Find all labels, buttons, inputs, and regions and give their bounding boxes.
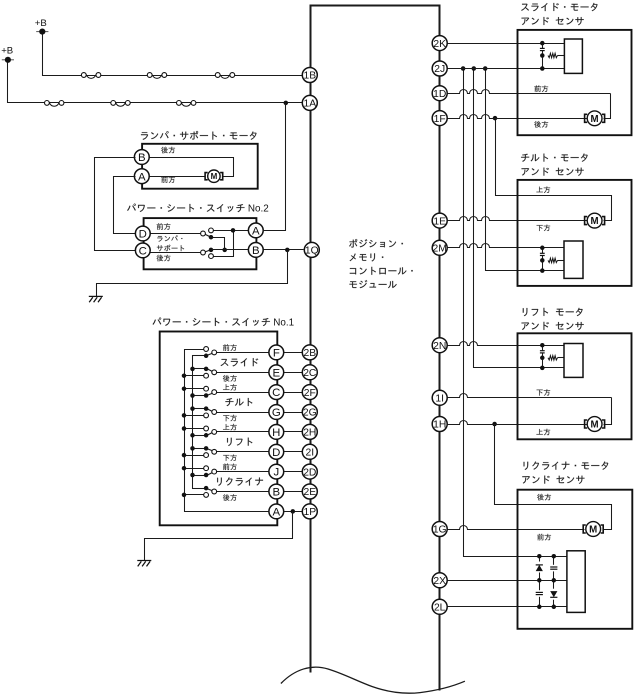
contact output H xyxy=(212,430,217,435)
label 上方 (tilt) xyxy=(536,186,550,192)
lift sensor block xyxy=(564,344,583,378)
label 下方 (lift) xyxy=(537,389,551,395)
junction left rail F xyxy=(0,0,1,1)
wire F to 2B xyxy=(284,352,304,354)
svg-text:2M: 2M xyxy=(433,244,447,255)
wire output D xyxy=(217,451,270,453)
pin 2C xyxy=(302,365,317,380)
wire rest contact D xyxy=(185,455,207,457)
junction on 1P line xyxy=(291,509,296,514)
wire left rail (rest contacts to A) xyxy=(185,350,270,512)
tilt sensor block xyxy=(564,241,583,278)
pin 2B xyxy=(302,345,317,360)
lift sensor capacitor xyxy=(540,351,545,353)
junction right rail G xyxy=(190,406,195,411)
pin 2H xyxy=(302,424,317,439)
svg-text:B: B xyxy=(252,245,260,257)
recliner diode D2 (right, down) xyxy=(550,589,557,600)
wire rest contact H xyxy=(185,428,207,430)
lift motor & sensor box xyxy=(518,333,632,439)
common pole dot D xyxy=(204,446,209,451)
common pole dot H xyxy=(204,433,209,438)
recliner capacitor C1 (right) xyxy=(550,565,558,572)
switch arm E xyxy=(207,369,215,373)
wire 1I to lift motor xyxy=(447,394,612,398)
svg-text:C: C xyxy=(272,387,280,399)
label 前方 (J) xyxy=(223,463,237,470)
wire 1D to slide motor xyxy=(447,90,611,94)
terminal D (sw2) xyxy=(135,226,150,241)
label power seat switch No.1 title xyxy=(153,318,295,329)
wire A to 1P xyxy=(284,511,304,513)
label 上方 (H) xyxy=(223,424,237,430)
wire common D xyxy=(193,448,207,450)
svg-text:D: D xyxy=(272,447,280,459)
junction recliner sensor right xyxy=(552,605,557,610)
pin 2X xyxy=(432,573,447,588)
svg-text:1I: 1I xyxy=(435,394,444,405)
wire upper throw to A xyxy=(212,230,250,232)
contact rest C xyxy=(204,386,209,391)
common pole dot J xyxy=(204,473,209,478)
label 後方 (lumbar) xyxy=(161,147,175,154)
junction recliner sensor left xyxy=(537,578,542,583)
lift sensor wiper wire xyxy=(558,357,565,359)
contact rest E xyxy=(204,373,209,378)
label スライド xyxy=(221,358,259,366)
pin 2J xyxy=(432,61,447,76)
svg-text:1H: 1H xyxy=(433,420,446,431)
power seat switch No.2 box xyxy=(144,218,257,269)
junction on 1Q line xyxy=(285,248,290,253)
switch arm D xyxy=(204,234,212,238)
svg-text:1P: 1P xyxy=(303,507,316,518)
wire rest contact F xyxy=(185,349,207,351)
svg-text:E: E xyxy=(272,367,280,379)
wire 1E to tilt motor xyxy=(447,217,587,221)
recliner diode D1 (left, up) xyxy=(536,562,543,573)
label 後方 (recliner) xyxy=(537,494,551,501)
label 前方 (F) xyxy=(223,344,237,351)
wire A up to 1A junction xyxy=(263,103,286,231)
wire rest contact C xyxy=(185,388,207,390)
wire J to 2D xyxy=(284,471,304,473)
circuit breaker CB3 on 1B line xyxy=(215,73,234,79)
wire common H xyxy=(193,435,207,437)
svg-text:F: F xyxy=(273,348,280,360)
svg-text:2X: 2X xyxy=(433,576,446,587)
wire output B xyxy=(217,491,270,493)
junction lift sensor bottom xyxy=(540,366,545,371)
junction bus1-2J xyxy=(461,66,466,71)
switch arm G xyxy=(207,409,215,413)
wire output J xyxy=(217,471,270,473)
wire B to 1Q xyxy=(212,249,304,251)
svg-text:2N: 2N xyxy=(433,341,446,352)
junction throw-A xyxy=(231,228,236,233)
contact output D xyxy=(212,449,217,454)
pin 1D xyxy=(432,86,447,101)
svg-text:H: H xyxy=(272,427,280,439)
wire E to 2C xyxy=(284,372,304,374)
slide sensor block xyxy=(564,39,582,73)
slide motor M xyxy=(585,111,605,126)
wire 2L to recliner sensor xyxy=(447,606,567,608)
pin 1E xyxy=(432,213,447,228)
junction bus2-2J xyxy=(472,66,477,71)
ground (switch No.2) xyxy=(89,296,103,302)
junction right rail F xyxy=(0,0,1,1)
junction bus4-1F xyxy=(493,116,498,121)
wire bus4 from 1F to tilt motor xyxy=(496,119,612,221)
contact C fixed xyxy=(201,250,206,255)
svg-text:1D: 1D xyxy=(433,89,446,100)
junction right rail C xyxy=(190,393,195,398)
svg-text:2H: 2H xyxy=(303,428,316,439)
common pole dot (lower) xyxy=(209,248,214,253)
pin 1B xyxy=(302,68,317,83)
wire lumbar B to switch C xyxy=(95,158,136,251)
junction lift sensor top xyxy=(540,343,545,348)
svg-text:1G: 1G xyxy=(433,525,447,536)
label リフト xyxy=(227,438,252,446)
recliner motor & sensor box xyxy=(518,490,633,629)
contact output B xyxy=(212,489,217,494)
junction right rail D xyxy=(190,446,195,451)
pin 2F xyxy=(302,385,317,400)
wire 1F to slide motor xyxy=(447,115,587,119)
svg-text:M: M xyxy=(211,172,218,181)
wire 1Q junction to ground xyxy=(97,250,288,297)
svg-text:A: A xyxy=(138,171,146,183)
label lumbar support motor title xyxy=(141,131,257,140)
label 下方 (D) xyxy=(223,454,237,460)
switch arm D xyxy=(207,449,215,452)
terminal C (sw1) xyxy=(269,385,284,400)
terminal E (sw1) xyxy=(269,365,284,380)
pin 2N xyxy=(432,338,447,353)
svg-text:A: A xyxy=(252,226,260,238)
pin 2E xyxy=(302,484,317,499)
terminal A (lumbar) xyxy=(134,169,149,184)
terminal D (sw1) xyxy=(269,444,284,459)
label power seat switch No.2 title xyxy=(127,204,269,215)
wire rest contact E xyxy=(185,375,207,377)
contact rest G xyxy=(204,413,209,418)
junction right rail J xyxy=(190,473,195,478)
wire output E xyxy=(217,372,270,374)
svg-text:D: D xyxy=(139,229,147,241)
label tilt motor & sensor title xyxy=(521,154,587,176)
wire lumbar A to switch D xyxy=(114,177,136,234)
junction common-B xyxy=(222,248,227,253)
svg-text:M: M xyxy=(589,525,597,536)
wire bus5 from 1H to recliner motor xyxy=(495,425,612,530)
label チルト xyxy=(225,398,252,406)
junction tilt sensor wiper xyxy=(540,258,545,263)
wire 1G to recliner motor xyxy=(447,526,585,530)
svg-text:2G: 2G xyxy=(303,408,317,419)
wire D to 2I xyxy=(284,451,304,453)
label recliner motor & sensor title xyxy=(522,462,608,484)
contact rest J xyxy=(204,466,209,471)
junction slide sensor wiper xyxy=(540,53,545,58)
label 下方 (G) xyxy=(223,415,237,421)
lumbar motor M xyxy=(205,170,223,182)
recliner sensor left column xyxy=(539,557,541,607)
svg-text:2B: 2B xyxy=(303,348,316,359)
tilt motor M xyxy=(585,213,605,228)
power source +B (lower) xyxy=(1,46,14,63)
wire common B xyxy=(193,488,207,490)
svg-text:No.1: No.1 xyxy=(273,318,294,329)
pin 1F xyxy=(432,111,447,126)
slide sensor aux vertical xyxy=(542,44,544,49)
junction right rail E xyxy=(190,367,195,372)
wire lumbar A to motor left xyxy=(149,176,206,178)
lift sensor aux vertical xyxy=(542,346,544,351)
label リクライナ xyxy=(217,477,263,485)
svg-text:2D: 2D xyxy=(303,467,316,478)
svg-text:2J: 2J xyxy=(434,64,445,75)
wire common C xyxy=(193,395,207,397)
terminal C (sw2) xyxy=(135,243,150,258)
junction left rail C xyxy=(182,386,187,391)
wire output G xyxy=(217,412,270,414)
label 後方 (B) xyxy=(223,494,237,501)
pin 1G xyxy=(432,522,447,537)
contact rest F xyxy=(204,347,209,352)
switch arm C xyxy=(204,250,212,253)
switch arm H xyxy=(207,432,215,436)
svg-text:1B: 1B xyxy=(303,71,316,82)
wire +B to 1A xyxy=(8,63,303,103)
svg-text:1E: 1E xyxy=(433,216,446,227)
junction left rail D xyxy=(182,453,187,458)
terminal B (lumbar) xyxy=(134,150,149,165)
label 前方 (recliner) xyxy=(537,534,551,541)
svg-text:M: M xyxy=(591,420,599,431)
junction recliner sensor left xyxy=(537,605,542,610)
pin 1Q xyxy=(304,242,319,257)
svg-text:+B: +B xyxy=(35,18,47,29)
recliner sensor block xyxy=(567,551,585,613)
svg-text:No.2: No.2 xyxy=(248,204,269,215)
junction lift sensor wiper xyxy=(540,356,545,361)
pin 2K xyxy=(432,36,447,51)
wire C to contact xyxy=(149,252,204,254)
junction bus5-1H xyxy=(492,422,497,427)
pin 1P xyxy=(302,504,317,519)
junction right rail H xyxy=(190,433,195,438)
label 後方 (slide) xyxy=(534,121,548,128)
circuit breaker CB4 on 1A line xyxy=(45,101,64,107)
junction left rail H xyxy=(182,426,187,431)
junction recliner sensor left xyxy=(537,554,542,559)
switch arm C xyxy=(207,393,215,396)
svg-text:2F: 2F xyxy=(304,388,316,399)
junction left rail E xyxy=(182,373,187,378)
contact throw lower xyxy=(209,254,214,259)
svg-text:G: G xyxy=(272,407,281,419)
pin 2L xyxy=(432,599,447,614)
contact output J xyxy=(212,469,217,474)
wire output C xyxy=(217,392,270,394)
wire +B to 1B xyxy=(43,35,303,76)
wire C to 2F xyxy=(284,392,304,394)
lift motor M xyxy=(585,417,605,432)
wire 2J to slide sensor xyxy=(447,68,565,70)
contact rest H xyxy=(204,426,209,431)
junction slide sensor bottom xyxy=(540,66,545,71)
break wavy line xyxy=(281,667,465,693)
label 上方 (C) xyxy=(223,384,237,390)
power seat module box (Position Memory Control Module) xyxy=(311,6,440,691)
circuit breaker CB1 on 1B line xyxy=(81,73,100,79)
slide motor & sensor box xyxy=(518,30,632,135)
pin 1I xyxy=(432,390,447,405)
wire rest contact J xyxy=(185,468,207,470)
power seat switch No.1 box xyxy=(160,332,278,526)
wire bus1 from 2J to recliner sensor xyxy=(464,69,567,557)
terminal A (sw2) xyxy=(248,223,263,238)
junction on 1A line xyxy=(284,101,289,106)
tilt sensor resistor xyxy=(548,258,558,262)
svg-text:1Q: 1Q xyxy=(305,246,319,257)
svg-text:2I: 2I xyxy=(306,448,315,459)
svg-text:M: M xyxy=(591,216,599,227)
pin 2M xyxy=(432,240,447,255)
svg-text:M: M xyxy=(591,114,599,125)
label 前方 (slide) xyxy=(534,85,548,92)
wire output F xyxy=(217,352,270,354)
recliner sensor right column xyxy=(553,557,555,607)
wire lower throw up to A line xyxy=(212,231,234,257)
lift sensor resistor xyxy=(548,356,558,360)
junction tilt sensor bottom xyxy=(540,268,545,273)
terminal B (sw2) xyxy=(248,243,263,258)
label 前方 (sw2) xyxy=(157,223,171,230)
svg-text:2K: 2K xyxy=(433,39,446,50)
common pole dot B xyxy=(204,486,209,491)
wire common G xyxy=(193,408,207,410)
terminal J (sw1) xyxy=(269,464,284,479)
wire right rail (commons) xyxy=(193,356,207,489)
svg-text:2C: 2C xyxy=(303,368,317,379)
switch arm J xyxy=(207,472,215,476)
wire common upper to B line xyxy=(212,238,225,250)
wire 2M to tilt sensor xyxy=(447,244,565,248)
common pole dot C xyxy=(204,393,209,398)
wire 2X to recliner sensor xyxy=(447,580,567,582)
circuit breaker CB2 on 1B line xyxy=(147,73,166,79)
wire common E xyxy=(193,368,207,370)
label 後方 (E) xyxy=(223,375,237,382)
circuit breaker CB5 on 1A line xyxy=(111,101,130,107)
junction tilt sensor top xyxy=(540,246,545,251)
svg-text:2L: 2L xyxy=(434,603,446,614)
terminal A (sw1) xyxy=(269,504,284,519)
common pole dot G xyxy=(204,406,209,411)
pin 2I xyxy=(302,444,317,459)
wire common F xyxy=(193,355,207,357)
contact throw upper xyxy=(209,228,214,233)
label 後方 (sw2) xyxy=(157,255,171,262)
label slide motor & sensor title xyxy=(521,3,597,25)
common pole dot (upper) xyxy=(209,235,214,240)
terminal F (sw1) xyxy=(269,345,284,360)
wire common J xyxy=(193,475,207,477)
wire rest contact B xyxy=(185,494,207,496)
common pole dot F xyxy=(204,354,209,359)
svg-text:1F: 1F xyxy=(434,114,446,125)
power source +B (upper) xyxy=(35,18,49,35)
contact rest D xyxy=(204,453,209,458)
slide sensor wiper wire xyxy=(558,55,565,57)
circuit breaker CB6 on 1A line xyxy=(177,101,196,107)
wire G to 2G xyxy=(284,412,304,414)
wire bus3 from 2J to tilt sensor xyxy=(486,69,565,271)
svg-text:2E: 2E xyxy=(303,487,316,498)
tilt sensor capacitor xyxy=(540,253,545,255)
wire 1H to lift motor xyxy=(447,421,587,425)
wire H to 2H xyxy=(284,431,304,433)
svg-text:B: B xyxy=(138,152,146,164)
wire 2K to slide sensor xyxy=(447,43,565,45)
junction left rail B xyxy=(182,493,187,498)
common pole dot E xyxy=(204,367,209,372)
slide sensor resistor xyxy=(548,53,558,57)
contact D fixed xyxy=(201,231,206,236)
wire B to 2E xyxy=(284,491,304,493)
wire D to contact xyxy=(149,233,204,235)
wire 1P junction to ground xyxy=(145,512,293,561)
ground (switch No.1) xyxy=(137,561,151,567)
lumbar support motor box xyxy=(142,144,258,189)
wire output H xyxy=(217,431,270,433)
recliner capacitor C2 (left) xyxy=(536,590,544,597)
junction recliner sensor right xyxy=(552,578,557,583)
contact rest B xyxy=(204,493,209,498)
svg-text:1A: 1A xyxy=(303,99,316,110)
pin 1A xyxy=(302,95,317,110)
svg-text:J: J xyxy=(273,467,279,479)
svg-text:+B: +B xyxy=(1,46,13,57)
contact output F xyxy=(212,350,217,355)
label 下方 (tilt) xyxy=(537,225,551,231)
pin 1H xyxy=(432,417,447,432)
junction bus3-2J xyxy=(483,66,488,71)
terminal G (sw1) xyxy=(269,405,284,420)
pin 2D xyxy=(302,464,317,479)
slide sensor capacitor xyxy=(540,48,545,50)
wire 2N to lift sensor xyxy=(447,342,565,346)
junction right rail B xyxy=(0,0,1,1)
label ランパ・サポート (sw2) xyxy=(157,235,184,251)
svg-text:C: C xyxy=(139,246,147,258)
svg-text:A: A xyxy=(272,507,280,519)
contact output C xyxy=(212,390,217,395)
junction left rail G xyxy=(182,413,187,418)
junction recliner sensor right xyxy=(552,554,557,559)
label 上方 (lift) xyxy=(536,429,550,435)
wire lumbar B to motor right xyxy=(149,158,234,177)
contact output G xyxy=(212,410,217,415)
terminal H (sw1) xyxy=(269,425,284,440)
switch arm B xyxy=(207,489,215,492)
switch arm F xyxy=(207,353,215,356)
tilt sensor wiper wire xyxy=(558,260,565,262)
